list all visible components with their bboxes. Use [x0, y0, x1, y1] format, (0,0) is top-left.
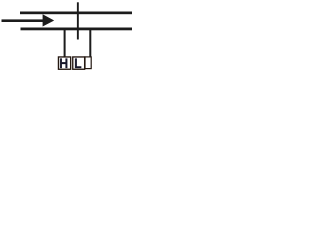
orifice plate: [77, 2, 79, 39]
empty port box: [85, 57, 91, 69]
flow arrow: [2, 14, 55, 26]
pipe bottom wall: [21, 28, 133, 31]
H port box: [58, 57, 70, 69]
L tap wire: [89, 29, 91, 57]
svg-text:H: H: [59, 55, 68, 71]
pipe top wall: [20, 12, 132, 15]
H tap wire: [64, 29, 66, 57]
L port box: [73, 57, 85, 69]
svg-text:L: L: [74, 55, 82, 71]
